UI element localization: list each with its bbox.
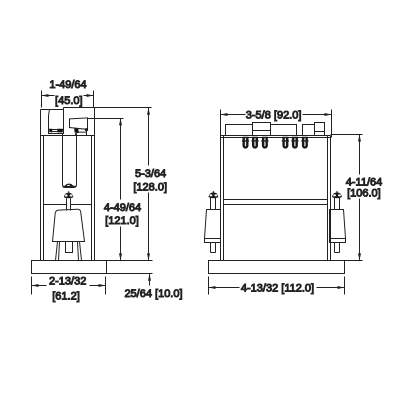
right body top line 1 xyxy=(221,135,331,137)
left screw head nub xyxy=(212,191,214,192)
10mm dim stub xyxy=(149,274,151,286)
right screw head highlights xyxy=(333,194,336,196)
right body outer wall left xyxy=(220,110,222,261)
right base plate xyxy=(209,261,345,274)
step between top levels xyxy=(63,108,65,110)
lip box B (taller) xyxy=(253,123,271,136)
right body top line 2 xyxy=(221,137,331,139)
right body inner wall right xyxy=(327,136,329,261)
112mm dim arrows xyxy=(209,286,345,289)
left terminal L feet xyxy=(49,129,63,133)
lip box B mid line xyxy=(253,130,271,132)
pins group 2 xyxy=(282,137,309,149)
10mm dim arrow xyxy=(148,274,151,281)
121mm dim arrows xyxy=(119,118,122,260)
left body top line + extension to 5-3/64 dim xyxy=(64,107,152,109)
112mm dim extension lines xyxy=(209,277,345,295)
inner rod xyxy=(63,134,77,188)
left body left wall xyxy=(40,110,42,261)
lip box E (taller) xyxy=(315,123,325,136)
left screw head (dark cap) xyxy=(209,193,219,199)
left body right wall xyxy=(94,108,96,261)
svg-text:1-49/64: 1-49/64 xyxy=(49,79,86,91)
92mm dim arrows xyxy=(221,113,332,116)
bell left leg xyxy=(56,242,60,261)
pushrod stem xyxy=(67,198,70,210)
pin 5 xyxy=(292,137,298,149)
left screw upper shaft xyxy=(211,198,216,210)
left top terminal L outline xyxy=(49,110,64,130)
61.2mm dim arrows xyxy=(32,284,106,287)
bell plunger xyxy=(53,209,85,241)
pin 4 xyxy=(282,137,288,149)
lip box E mid line xyxy=(315,131,325,133)
106mm dim arrows xyxy=(358,135,361,261)
svg-text:[61.2]: [61.2] xyxy=(52,291,80,303)
45mm dim arrows xyxy=(42,94,94,97)
rod bottom heavy edge xyxy=(63,186,76,188)
left screw flange xyxy=(205,239,221,243)
left body inner wall left xyxy=(43,136,45,261)
pushrod cap highlights xyxy=(65,194,68,196)
right body inner wall left xyxy=(223,136,225,261)
right screw head (dark cap) xyxy=(332,193,342,199)
right body outer wall right xyxy=(330,136,332,261)
right screw head nub xyxy=(336,191,338,192)
pushrod cap top nub xyxy=(68,191,70,192)
svg-text:[128.0]: [128.0] xyxy=(133,181,167,193)
left body top stub left of terminal xyxy=(41,109,50,111)
61.2mm dim line segments xyxy=(32,285,106,287)
pushrod cap (screw head) xyxy=(64,193,73,199)
pin 2 xyxy=(252,137,258,149)
bell right leg xyxy=(78,242,82,261)
right body mid line 1 xyxy=(224,199,328,201)
left body chamber divider xyxy=(44,204,92,206)
pins group 1 xyxy=(242,137,269,149)
pin 1 xyxy=(243,137,249,149)
right screw lower shaft xyxy=(335,243,340,253)
svg-text:2-13/32: 2-13/32 xyxy=(49,275,86,287)
left body shoulder line xyxy=(41,135,95,137)
bell center stem xyxy=(66,242,73,253)
svg-text:4-13/32 [112.0]: 4-13/32 [112.0] xyxy=(241,282,314,294)
106mm dim line xyxy=(359,135,361,261)
extension line from right terminal top xyxy=(88,118,124,120)
112mm dim line segments xyxy=(209,287,345,289)
svg-text:[45.0]: [45.0] xyxy=(55,95,83,107)
left screw lower shaft xyxy=(211,243,216,253)
right screw upper shaft xyxy=(335,198,340,210)
svg-text:[121.0]: [121.0] xyxy=(105,215,139,227)
left body inner wall right xyxy=(91,136,93,261)
right screw flange xyxy=(330,239,346,243)
lip box D xyxy=(303,125,315,136)
svg-text:[106.0]: [106.0] xyxy=(347,188,381,200)
left terminal R feet xyxy=(74,128,88,133)
left screw head highlights xyxy=(209,194,212,196)
right body mid line 2 xyxy=(224,204,328,206)
pin 6 xyxy=(302,137,308,149)
92mm dim line segments xyxy=(221,114,332,116)
rod bottom nut slit xyxy=(67,185,70,186)
svg-text:4-11/64: 4-11/64 xyxy=(346,176,383,188)
left terminal L pedestal xyxy=(49,130,64,134)
106mm top extension line xyxy=(331,134,363,136)
128mm dim line (x=148.9) xyxy=(148,108,150,261)
left terminal R pedestal xyxy=(75,130,87,136)
106mm bottom extension line xyxy=(345,260,363,262)
base top extension line xyxy=(107,260,153,262)
svg-text:5-3/64: 5-3/64 xyxy=(135,168,166,180)
61.2mm dim extension lines xyxy=(32,277,106,295)
pin 3 xyxy=(262,137,268,149)
lip box C xyxy=(271,125,297,136)
left screw block xyxy=(205,210,221,239)
base bottom extension line xyxy=(107,273,153,275)
left terminal L foot bar xyxy=(52,131,58,133)
121mm dim line (x=120.6) xyxy=(120,119,122,261)
92mm dim extension lines xyxy=(221,110,332,138)
svg-text:3-5/8 [92.0]: 3-5/8 [92.0] xyxy=(246,109,302,121)
left top terminal R outline xyxy=(70,118,88,129)
45mm dim extension lines xyxy=(42,91,94,108)
128mm dim arrows xyxy=(147,108,150,261)
rod bottom nut dome xyxy=(65,184,74,187)
right screw block xyxy=(330,210,346,239)
left base plate xyxy=(32,261,107,274)
svg-text:25/64 [10.0]: 25/64 [10.0] xyxy=(124,288,182,300)
svg-text:4-49/64: 4-49/64 xyxy=(104,202,141,214)
lip box A xyxy=(226,125,253,136)
45mm dim line segments xyxy=(42,95,94,97)
